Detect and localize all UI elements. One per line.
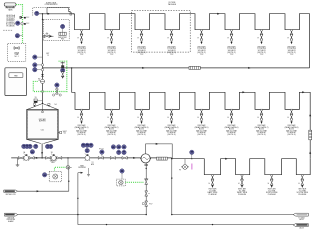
svg-text:PLENUM: PLENUM (209, 194, 217, 196)
svg-text:N-2: N-2 (64, 132, 67, 134)
right flag 2 (293, 224, 308, 227)
M3 branch 1 (209, 175, 214, 188)
svg-text:COMPRESSOR: COMPRESSOR (45, 4, 59, 6)
drop from M3 junction (171, 159, 173, 215)
right flag1 text (298, 218, 305, 222)
xv label (35, 97, 37, 99)
green path G4 (125, 181, 143, 183)
right flag 1 (293, 213, 308, 216)
svg-text:(NOTE 3): (NOTE 3) (107, 134, 115, 136)
valve at right of G4 (145, 163, 147, 215)
svg-text:TANK: TANK (8, 8, 13, 11)
svg-text:PACKAGE: PACKAGE (168, 3, 177, 6)
svg-text:SET: SET (46, 53, 49, 55)
to atm text (91, 162, 95, 166)
M3 branch 2 (238, 175, 243, 188)
pump 3 (85, 154, 90, 161)
M1 branch 6 (227, 30, 232, 45)
svg-text:PLENUM: PLENUM (238, 194, 246, 196)
svg-text:(NOTE 3): (NOTE 3) (137, 134, 145, 136)
control valve below M3 line (184, 159, 186, 164)
tank funnel bottom (27, 139, 59, 143)
small black box symbols (24, 17, 26, 19)
half filled circle symbol (19, 16, 22, 19)
pump 1 (18, 157, 23, 160)
svg-text:(NOTE 3): (NOTE 3) (197, 134, 205, 136)
pump2 tag (51, 152, 53, 154)
cluster bubbles right (111, 145, 115, 149)
dashed box around solenoid (49, 171, 61, 182)
dashed box: local control panel (8, 43, 26, 61)
tank tag (41, 130, 44, 132)
flag1 text (5, 193, 16, 196)
small drain hatch (88, 168, 90, 174)
flow element circle (40, 79, 44, 83)
svg-text:(NOTE 3): (NOTE 3) (77, 134, 85, 136)
M1 branch 1 (77, 30, 82, 45)
magenta mark (191, 164, 193, 170)
long header line (43, 67, 310, 69)
svg-text:RS485: RS485 (10, 25, 15, 27)
M1 branch 4 (167, 30, 172, 45)
small circle at green crossing (41, 90, 43, 92)
tank roof (27, 104, 59, 110)
tank side nozzle (58, 132, 59, 134)
stub to filter valve (43, 35, 54, 37)
M2 branch 2 (107, 109, 112, 124)
dryer package box (59, 32, 66, 35)
svg-text:VENT: VENT (80, 165, 84, 167)
svg-text:PCV: PCV (149, 203, 152, 205)
inline silencer/filter on header (189, 66, 200, 69)
svg-text:7.5: 7.5 (47, 55, 49, 57)
cluster bubbles left (81, 143, 85, 147)
pcv label (149, 203, 152, 205)
enclosure label (168, 2, 177, 6)
receiver vessel V-1 top left (4, 3, 16, 6)
M3 branch 4 (298, 175, 303, 188)
valve on green path (55, 83, 59, 87)
nozzle label (63, 131, 67, 135)
M1 branch 8 (287, 30, 292, 45)
dashed marks bottom of table (3, 29, 12, 31)
instrument bubbles under tank (22, 144, 26, 148)
fy label (99, 148, 104, 150)
svg-text:24VDC: 24VDC (10, 22, 16, 24)
dashed enclosure B (filter skid) (43, 20, 69, 41)
storage tank T-1 (27, 110, 59, 140)
M2 branch 8 (287, 109, 292, 124)
left flag 2 (4, 213, 17, 216)
instrument bubble LI (16, 21, 20, 25)
plc label 1 (26, 17, 30, 19)
vertical inline flame arrestor (309, 130, 312, 140)
svg-text:PRESSURE: PRESSURE (7, 219, 15, 221)
vessel label (6, 8, 16, 12)
svg-text:NO. 1: NO. 1 (15, 56, 19, 58)
M2 branch 3 (137, 109, 142, 124)
M1 branch 5 (197, 30, 202, 45)
SS fittings (70, 13, 72, 14)
supply air line (39, 13, 75, 15)
drop to flag line (68, 167, 70, 191)
inline filter after compressor (157, 157, 168, 160)
sample box (34, 99, 37, 103)
svg-text:FY 101: FY 101 (99, 148, 104, 150)
compressor C-1 with bypass (146, 144, 173, 159)
drain stub left (17, 158, 19, 165)
svg-text:(NOTE 3): (NOTE 3) (257, 134, 265, 136)
M2 branch 4 (167, 109, 172, 124)
svg-text:24VDC: 24VDC (10, 20, 16, 22)
svg-text:N-1: N-1 (55, 104, 58, 106)
svg-text:T-01: T-01 (41, 130, 44, 132)
dashed enclosure A (supply) (33, 8, 70, 16)
vent text (78, 165, 86, 169)
supply air title (45, 1, 59, 6)
dashed box text (14, 51, 20, 58)
dryer label (58, 36, 67, 41)
HMI cabinet (5, 68, 27, 96)
green highlighted path G2 (33, 61, 67, 91)
svg-text:TO DWG: TO DWG (298, 218, 305, 220)
relief/vent column (62, 62, 64, 78)
pump 2 (46, 157, 51, 160)
tank outlet (41, 143, 43, 158)
4-way junction (67, 158, 69, 165)
inline valves mid (98, 157, 103, 160)
bubble above solenoid box (120, 169, 124, 173)
signal list column 1 (6, 14, 11, 27)
svg-text:(NOTE 3): (NOTE 3) (287, 134, 295, 136)
plc label 2 (26, 23, 30, 25)
manifold M2 header (75, 92, 310, 133)
line B (78, 224, 295, 226)
hmi screen text (14, 75, 18, 77)
manifold M3 header (172, 159, 310, 175)
svg-text:01: 01 (38, 80, 40, 82)
manifold M1 header (75, 14, 310, 68)
svg-text:(NOTE 3): (NOTE 3) (227, 134, 235, 136)
signal list column 2 (10, 14, 16, 27)
flag2 text (7, 216, 15, 223)
manifold M2 feed (72, 68, 75, 92)
pump1 tag (23, 151, 25, 154)
flag line 1 (18, 190, 69, 192)
valves on drop to line A (145, 191, 148, 196)
roof fittings (33, 104, 35, 106)
M2 branch 6 (227, 109, 232, 124)
M1 branch 3 (137, 30, 142, 45)
solid valve on vertical (41, 74, 44, 76)
svg-text:1B: 1B (51, 152, 53, 154)
pump suction/discharge line (11, 157, 172, 159)
svg-text:SILENCER: SILENCER (78, 167, 86, 169)
green path G3 (55, 167, 66, 170)
bubbles beside vertical (33, 55, 37, 59)
tank text (39, 118, 47, 123)
svg-text:HMI: HMI (14, 75, 18, 77)
svg-text:XV: XV (35, 97, 37, 99)
inline fittings on vertical (41, 64, 43, 66)
instrument bubble PI on green line (15, 34, 19, 38)
M3 line bubble (190, 150, 194, 154)
svg-text:24VDC: 24VDC (10, 18, 16, 20)
dashed enclosure around M1 branches (132, 10, 191, 52)
dryer bubble (60, 24, 64, 28)
M2 branch 1 (77, 109, 82, 124)
vent label (50, 161, 57, 165)
line A1 (18, 214, 146, 216)
M1 branch 7 (257, 30, 262, 45)
M3 branch 3 (268, 175, 273, 188)
M2 branch 7 (257, 109, 262, 124)
right flag2 text (299, 227, 304, 230)
M1 branch 2 (107, 30, 112, 45)
M2 branch 5 (197, 109, 202, 124)
dashed solenoid box (116, 179, 125, 186)
svg-text:(NOTE 3): (NOTE 3) (167, 134, 175, 136)
small grey circle (21, 22, 24, 25)
main vertical header drop (42, 14, 44, 104)
line A2 (172, 214, 295, 216)
svg-text:PLENUM: PLENUM (268, 194, 276, 196)
bypass over enclosure (47, 8, 70, 14)
svg-text:PLENUM: PLENUM (298, 194, 306, 196)
svg-text:BUFFER: BUFFER (39, 121, 47, 123)
left flag 1 (4, 190, 18, 192)
vent stack right of junction (77, 173, 79, 225)
compressor discharge instrument bubble (35, 11, 39, 15)
green highlighted path G1 (16, 5, 23, 44)
